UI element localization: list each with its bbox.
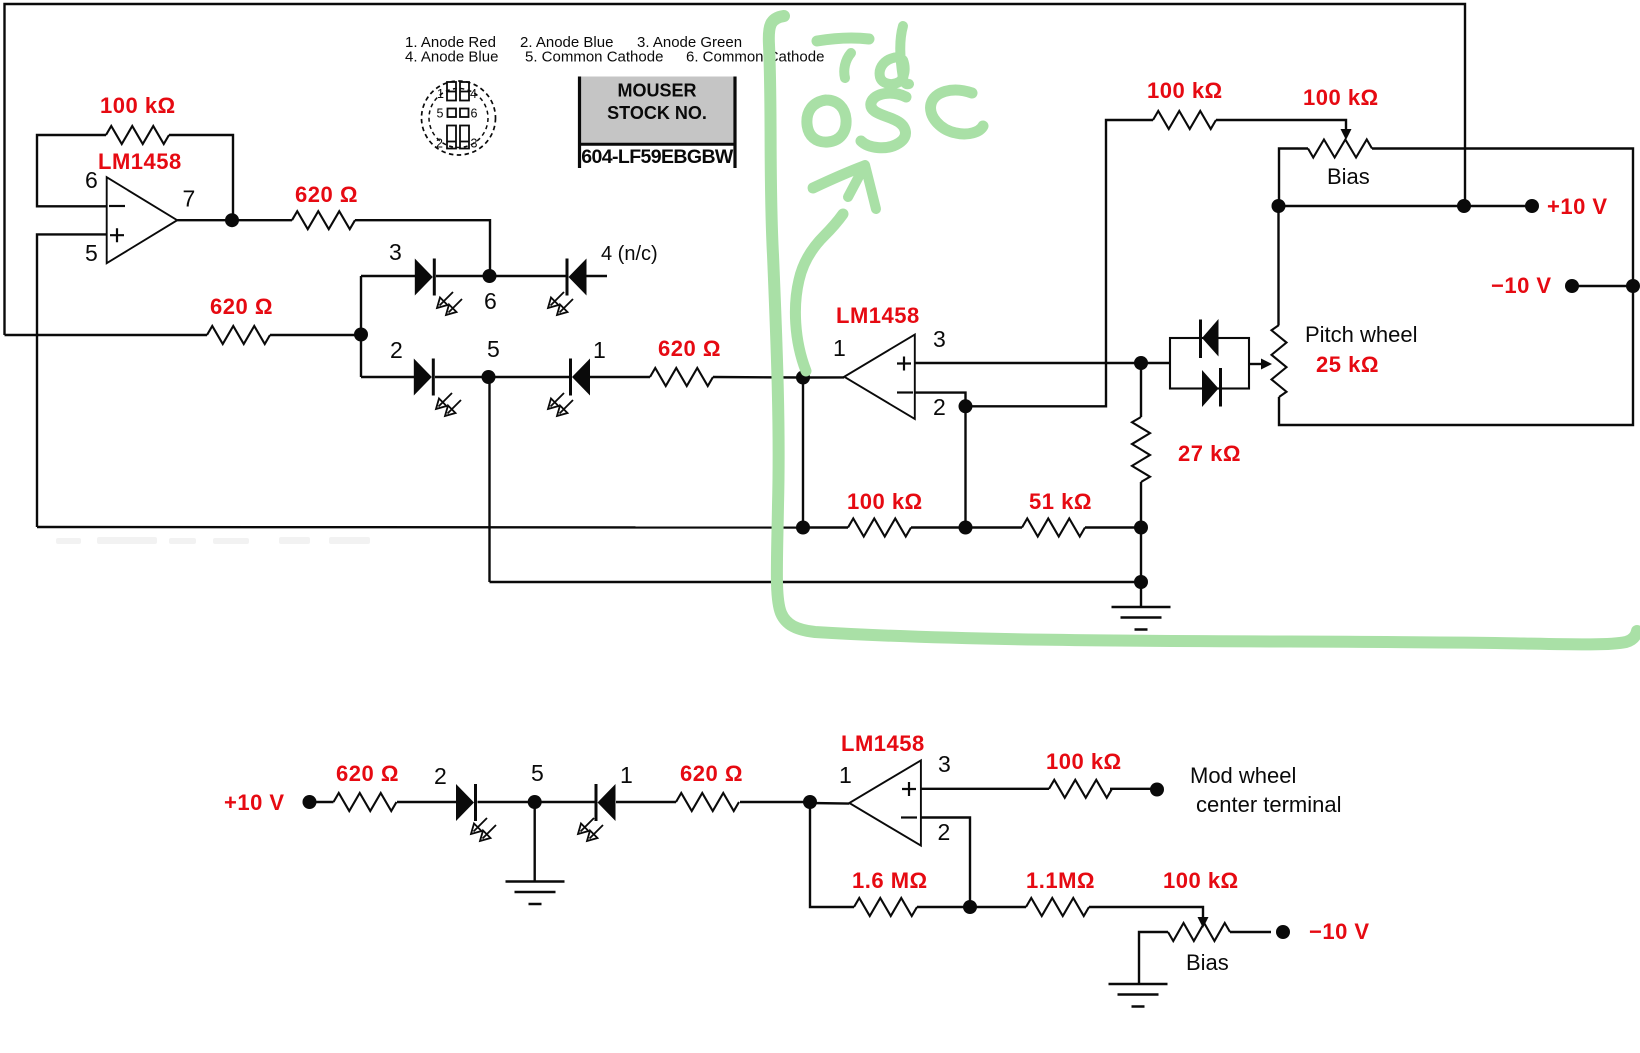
wire node 5 to LED 1 (bottom)	[535, 801, 596, 803]
svg-text:5: 5	[487, 336, 500, 362]
svg-text:LM1458: LM1458	[836, 303, 920, 328]
svg-text:3: 3	[933, 326, 946, 352]
junction LED branch node	[354, 328, 368, 342]
bias pot wiper arrow (bottom)	[1198, 917, 1209, 928]
wire LED 1 to 620 Ohm	[590, 376, 650, 378]
svg-text:2: 2	[938, 819, 951, 845]
LED D3 emission arrows	[437, 292, 462, 315]
bias pot wiper arrow	[1341, 129, 1352, 140]
LED D1b (pin 1)	[596, 784, 616, 821]
MOUSER stock number box	[578, 77, 737, 169]
wire 27k to ground rail	[1140, 482, 1142, 582]
U2 input polarity signs	[897, 357, 913, 393]
wire node 5 to ground (bottom)	[534, 802, 536, 881]
LED D1 (pin 1, anode red)	[571, 359, 591, 396]
svg-text:MOUSER: MOUSER	[617, 81, 696, 101]
wire 1.1M to bias wiper (bottom)	[1089, 907, 1203, 917]
node mod wheel terminal	[1150, 783, 1164, 797]
resistor 1.6 MOhm	[854, 898, 917, 916]
U3 input polarity signs	[901, 782, 917, 818]
svg-text:+10 V: +10 V	[224, 790, 285, 815]
svg-text:+10 V: +10 V	[1547, 194, 1608, 219]
wire LED 2 cathode to node 5	[435, 376, 483, 378]
wire to LED 2 anode	[361, 376, 414, 378]
ground (main)	[1112, 607, 1171, 630]
svg-text:1.6 MΩ: 1.6 MΩ	[852, 868, 928, 893]
wire U3 node down to 1.6M	[810, 802, 854, 907]
junction U3 output node	[803, 795, 817, 809]
wire 100k to bias wiper arrow	[1216, 120, 1346, 129]
junction 51k/27k node	[1134, 521, 1148, 535]
svg-text:27 kΩ: 27 kΩ	[1178, 441, 1241, 466]
svg-text:6: 6	[484, 288, 497, 314]
node +10V terminal	[1525, 199, 1539, 213]
wire LED 3 cathode to node 6	[436, 275, 484, 277]
svg-text:620 Ω: 620 Ω	[680, 761, 743, 786]
LED D3 (pin 3, anode)	[415, 259, 435, 296]
wire U1 output	[177, 219, 292, 221]
wire 620 Ohm to LED 2	[397, 801, 456, 803]
svg-text:5: 5	[437, 107, 444, 121]
junction ground node	[1134, 575, 1148, 589]
svg-text:Pitch wheel: Pitch wheel	[1305, 322, 1418, 347]
svg-text:5: 5	[85, 240, 98, 266]
svg-text:2: 2	[933, 394, 946, 420]
faint erased text remnant	[56, 537, 370, 544]
resistor 100 kOhm (mod wheel)	[1049, 780, 1112, 798]
LED D2b (pin 2)	[456, 784, 476, 821]
svg-text:4: 4	[470, 87, 477, 101]
wire -10V to right rail	[1572, 285, 1633, 287]
wire to LED 3 anode	[361, 275, 415, 277]
wire 51k to pitch-divider node	[1085, 526, 1141, 528]
svg-text:100 kΩ: 100 kΩ	[1303, 85, 1379, 110]
svg-text:4. Anode Blue: 4. Anode Blue	[405, 49, 498, 66]
svg-text:LM1458: LM1458	[98, 149, 182, 174]
wire pitch node to diode box	[1147, 362, 1170, 364]
svg-text:Bias: Bias	[1186, 950, 1229, 975]
wire +10V rail down to pitch pot	[1277, 206, 1279, 325]
LED D2b emission arrows	[471, 818, 496, 841]
resistor 620 Ohm (row 2)	[207, 326, 270, 344]
junction U1 output node	[225, 213, 239, 227]
node +10V terminal (bottom)	[303, 795, 317, 809]
resistor 27 kOhm	[1132, 417, 1150, 482]
wire LED 1 to 620 Ohm (bottom)	[616, 801, 676, 803]
resistor 100 kOhm (to bias wiper)	[1153, 111, 1216, 129]
svg-text:620 Ω: 620 Ω	[295, 182, 358, 207]
wire LED branch vertical	[360, 276, 362, 377]
pitch pot wiper arrow	[1261, 359, 1272, 370]
svg-text:−10 V: −10 V	[1309, 919, 1370, 944]
connector pin number labels	[436, 87, 478, 151]
LED D2 emission arrows	[436, 393, 461, 416]
wire feedback right to U1 output	[169, 135, 233, 220]
svg-text:STOCK NO.: STOCK NO.	[607, 103, 707, 123]
svg-text:5. Common Cathode: 5. Common Cathode	[525, 49, 663, 66]
svg-text:100 kΩ: 100 kΩ	[1163, 868, 1239, 893]
junction +10V / frame	[1457, 199, 1471, 213]
potentiometer Pitch wheel 25 kOhm	[1272, 325, 1287, 397]
wire U2 pin2 to feedback node	[915, 393, 966, 407]
wire U2 output to node	[803, 376, 844, 379]
wire U3 pin2 down to feedback node	[921, 818, 970, 908]
wire U2 output to feedback row	[802, 378, 804, 528]
resistor 100 kOhm (U2 feedback)	[848, 519, 911, 537]
LED D1 emission arrows	[548, 393, 573, 416]
resistor 620 Ohm (to U2)	[650, 368, 713, 386]
resistor 620 Ohm (bottom right)	[676, 793, 739, 811]
svg-text:3: 3	[938, 751, 951, 777]
anti-parallel diode pair box	[1170, 338, 1249, 389]
svg-text:2: 2	[436, 137, 443, 151]
junction +10V / bias left	[1272, 199, 1286, 213]
LED D2 (pin 2, anode)	[414, 359, 434, 396]
resistor 620 Ohm (bottom left)	[334, 793, 397, 811]
junction U2 inverting node	[959, 399, 973, 413]
potentiometer Bias 100 kOhm (bottom)	[1168, 923, 1230, 941]
LED D4 (pin 4, n/c)	[567, 259, 587, 296]
svg-text:1: 1	[620, 762, 633, 788]
wire LED 4 open end (n/c)	[587, 275, 608, 277]
wire node 5 down to ground rail	[488, 377, 490, 582]
junction 100k row left	[796, 521, 810, 535]
wire pitch node down to 27k	[1140, 363, 1142, 417]
resistor R-feedback 100 kOhm	[106, 126, 169, 144]
svg-text:4 (n/c): 4 (n/c)	[601, 243, 658, 265]
junction pitch node	[1134, 356, 1148, 370]
hand-drawn green arrow to osc	[795, 214, 843, 371]
wire U1 inverting input / feedback left	[37, 135, 107, 206]
svg-text:LM1458: LM1458	[841, 731, 925, 756]
wire 100k to mod wheel terminal	[1110, 788, 1151, 790]
junction 100k/51k node	[959, 521, 973, 535]
junction U2 output node	[796, 371, 810, 385]
wire 1.6M to 1.1M	[917, 906, 1026, 908]
LED D1b emission arrows	[578, 818, 603, 841]
diode D6 (bottom, cathode right)	[1202, 368, 1221, 407]
LED connector pinout (rear view)	[422, 81, 496, 155]
svg-text:6: 6	[85, 167, 98, 193]
wire 620 Ohm to LED pin 6 node	[355, 220, 490, 276]
svg-text:center terminal: center terminal	[1196, 792, 1342, 817]
svg-text:3: 3	[471, 137, 478, 151]
svg-text:Mod wheel: Mod wheel	[1190, 763, 1296, 788]
wire U1 pin5 down left rail	[37, 234, 107, 527]
svg-text:3: 3	[389, 239, 402, 265]
wire bias right to -10V	[1230, 931, 1271, 933]
svg-text:2: 2	[390, 337, 403, 363]
svg-text:100 kΩ: 100 kΩ	[1147, 78, 1223, 103]
wire U2 pin3 to pitch node	[915, 362, 1141, 364]
wire left rail to 100k row	[37, 526, 803, 529]
svg-text:620 Ω: 620 Ω	[658, 336, 721, 361]
resistor 620 Ohm (U1 output)	[292, 211, 355, 229]
junction U3 feedback node	[963, 900, 977, 914]
wire 620 Ohm to U3 node	[740, 801, 810, 803]
junction -10V / right rail	[1626, 279, 1640, 293]
hand-written green word To	[817, 38, 869, 41]
svg-text:2: 2	[434, 763, 447, 789]
potentiometer Bias 100 kOhm (top)	[1308, 140, 1372, 158]
wire 100k to 51k	[911, 526, 1022, 528]
wire diode box to pitch wiper	[1249, 363, 1262, 365]
wire frame to 620 Ohm (row 2)	[5, 334, 208, 336]
diode D5 (top, cathode left)	[1201, 319, 1219, 358]
svg-text:25 kΩ: 25 kΩ	[1316, 352, 1379, 377]
wire bias left to ground (bottom)	[1139, 932, 1168, 984]
wire +10V rail	[1279, 205, 1533, 207]
wire ground rail	[490, 581, 1142, 583]
wire node 5 to LED 1	[494, 376, 571, 378]
svg-text:100 kΩ: 100 kΩ	[1046, 749, 1122, 774]
LED D4 emission arrows	[548, 292, 573, 315]
resistor 51 kOhm	[1022, 519, 1085, 537]
wire to ground symbol	[1140, 582, 1142, 607]
wire 620 Ohm to LED branch node	[270, 334, 361, 336]
op-amp U1 LM1458 (pins 5,6,7)	[107, 177, 178, 263]
junction node 5 (bottom)	[528, 795, 542, 809]
svg-text:51 kΩ: 51 kΩ	[1029, 489, 1092, 514]
svg-text:Bias: Bias	[1327, 164, 1370, 189]
U1 input polarity signs	[109, 206, 125, 242]
svg-text:100 kΩ: 100 kΩ	[100, 93, 176, 118]
svg-text:1.1MΩ: 1.1MΩ	[1026, 868, 1095, 893]
junction node 5 (common cathode)	[482, 370, 496, 384]
svg-text:1: 1	[593, 337, 606, 363]
svg-text:100 kΩ: 100 kΩ	[847, 489, 923, 514]
svg-text:1: 1	[437, 87, 444, 101]
wire bias pot left to +10V rail	[1279, 149, 1308, 207]
svg-text:5: 5	[531, 760, 544, 786]
junction node 6 (common cathode)	[483, 269, 497, 283]
wire U3 pin3 to 100k	[921, 788, 1049, 790]
wire LED 2 to node 5 (bottom)	[478, 801, 532, 803]
ground (bottom bias)	[1109, 984, 1168, 1007]
svg-text:620 Ω: 620 Ω	[210, 294, 273, 319]
svg-text:1: 1	[839, 762, 852, 788]
svg-text:1: 1	[833, 335, 846, 361]
op-amp U3 LM1458 (pins 1,2,3)	[849, 760, 921, 845]
wire +10V to 620 Ohm	[310, 801, 334, 803]
svg-text:7: 7	[183, 186, 196, 212]
wire node to 100k	[803, 526, 848, 528]
wire node 6 to LED 4	[496, 275, 567, 277]
wire frame border (left/top/right)	[5, 4, 1466, 335]
wire bias pot right around loop to pitch pot bottom	[1279, 149, 1633, 426]
svg-text:6: 6	[471, 107, 478, 121]
op-amp U2 LM1458 (pins 1,2,3)	[844, 335, 915, 420]
node -10V terminal	[1565, 279, 1579, 293]
svg-text:6. Common Cathode: 6. Common Cathode	[686, 49, 824, 66]
wire 620 Ohm to U2 input node	[713, 376, 803, 379]
node -10V terminal (bottom)	[1276, 925, 1290, 939]
svg-text:604-LF59EBGBW: 604-LF59EBGBW	[581, 146, 734, 168]
ground (bottom LED)	[506, 882, 565, 905]
wire feedback up to 100k branch	[966, 120, 1154, 406]
hand-written green word osc	[807, 100, 846, 142]
wire U3 output	[810, 802, 849, 805]
hand-drawn green boundary stroke	[769, 16, 1637, 644]
resistor 1.1 MOhm	[1026, 898, 1089, 916]
wire U2 inverting node down	[964, 406, 966, 527]
svg-text:620 Ω: 620 Ω	[336, 761, 399, 786]
svg-text:−10 V: −10 V	[1491, 273, 1552, 298]
